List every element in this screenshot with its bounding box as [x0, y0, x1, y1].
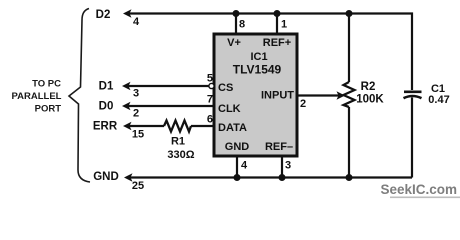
svg-text:ERR: ERR	[93, 121, 118, 133]
wire pin8	[235, 14, 237, 36]
svg-text:D0: D0	[99, 101, 114, 113]
arrowhead D0	[122, 102, 131, 110]
junction node R2/top bus	[346, 10, 353, 17]
svg-text:25: 25	[132, 180, 144, 192]
svg-text:SeekIC.com: SeekIC.com	[380, 182, 457, 197]
capacitor C1 bottom plate	[404, 96, 422, 98]
svg-text:CS: CS	[218, 82, 233, 94]
junction node pin1/bus	[274, 10, 281, 17]
wire R1 to DATA	[191, 125, 214, 127]
capacitor C1 top plate	[404, 91, 422, 94]
svg-text:1: 1	[281, 19, 287, 31]
arrowhead D2	[123, 9, 132, 17]
svg-text:CLK: CLK	[218, 103, 241, 115]
arrowhead D1	[122, 82, 131, 90]
svg-text:IC1: IC1	[250, 51, 267, 63]
svg-text:PARALLEL: PARALLEL	[12, 91, 62, 102]
junction node R2/bottom bus	[346, 174, 353, 181]
IC U1 TLV1549 body	[214, 34, 297, 156]
wire bus to R2 top	[348, 14, 350, 83]
arrowhead R2 wiper	[337, 91, 346, 99]
svg-text:4: 4	[133, 16, 140, 28]
wire R2 bottom to bus	[348, 107, 350, 178]
svg-text:6: 6	[207, 114, 213, 126]
svg-text:TLV1549: TLV1549	[233, 63, 282, 77]
wire ERR to R1	[126, 125, 164, 127]
inverter bubble CS pin	[209, 83, 214, 88]
svg-text:2: 2	[133, 108, 139, 120]
arrowhead ERR	[123, 122, 132, 130]
svg-text:REF–: REF–	[265, 141, 293, 153]
wire D1 to CS	[126, 85, 209, 87]
svg-text:3: 3	[285, 160, 291, 172]
wire pin3	[281, 156, 283, 178]
junction node pin4/bottom bus	[234, 174, 241, 181]
wire C1 bottom lead	[411, 98, 413, 178]
wire pin4	[236, 156, 238, 178]
arrowhead GND	[124, 173, 133, 181]
wire GND bottom bus	[127, 176, 412, 178]
svg-text:V+: V+	[227, 37, 241, 49]
svg-text:15: 15	[132, 129, 144, 141]
svg-text:330Ω: 330Ω	[167, 149, 194, 161]
svg-text:D2: D2	[96, 9, 111, 21]
watermark underline artifact	[390, 197, 460, 199]
svg-text:R1: R1	[171, 136, 185, 148]
svg-text:GND: GND	[93, 171, 119, 183]
resistor R1	[164, 121, 191, 132]
wire D2 top bus	[126, 14, 412, 91]
wire pin1	[276, 14, 278, 36]
junction node pin3/bottom bus	[279, 174, 286, 181]
svg-text:INPUT: INPUT	[261, 90, 294, 102]
junction node pin8/bus	[233, 10, 240, 17]
svg-text:3: 3	[133, 88, 139, 100]
label TO PC PARALLEL PORT	[12, 79, 62, 115]
svg-text:2: 2	[300, 98, 306, 110]
svg-text:7: 7	[207, 94, 213, 106]
svg-text:4: 4	[241, 160, 248, 172]
wire D0 to CLK	[125, 105, 214, 107]
svg-text:100K: 100K	[356, 94, 384, 106]
brace for parallel port	[69, 9, 90, 183]
svg-text:D1: D1	[99, 81, 114, 93]
svg-text:8: 8	[239, 19, 245, 31]
potentiometer R2	[344, 82, 355, 107]
wire INPUT to R2 wiper	[297, 94, 340, 96]
svg-text:R2: R2	[361, 81, 376, 93]
svg-text:5: 5	[207, 73, 213, 85]
svg-text:PORT: PORT	[35, 104, 62, 115]
svg-text:GND: GND	[225, 141, 250, 153]
svg-text:REF+: REF+	[263, 37, 291, 49]
svg-text:0.47: 0.47	[428, 94, 449, 106]
svg-text:DATA: DATA	[218, 122, 247, 134]
svg-text:TO PC: TO PC	[32, 79, 61, 90]
